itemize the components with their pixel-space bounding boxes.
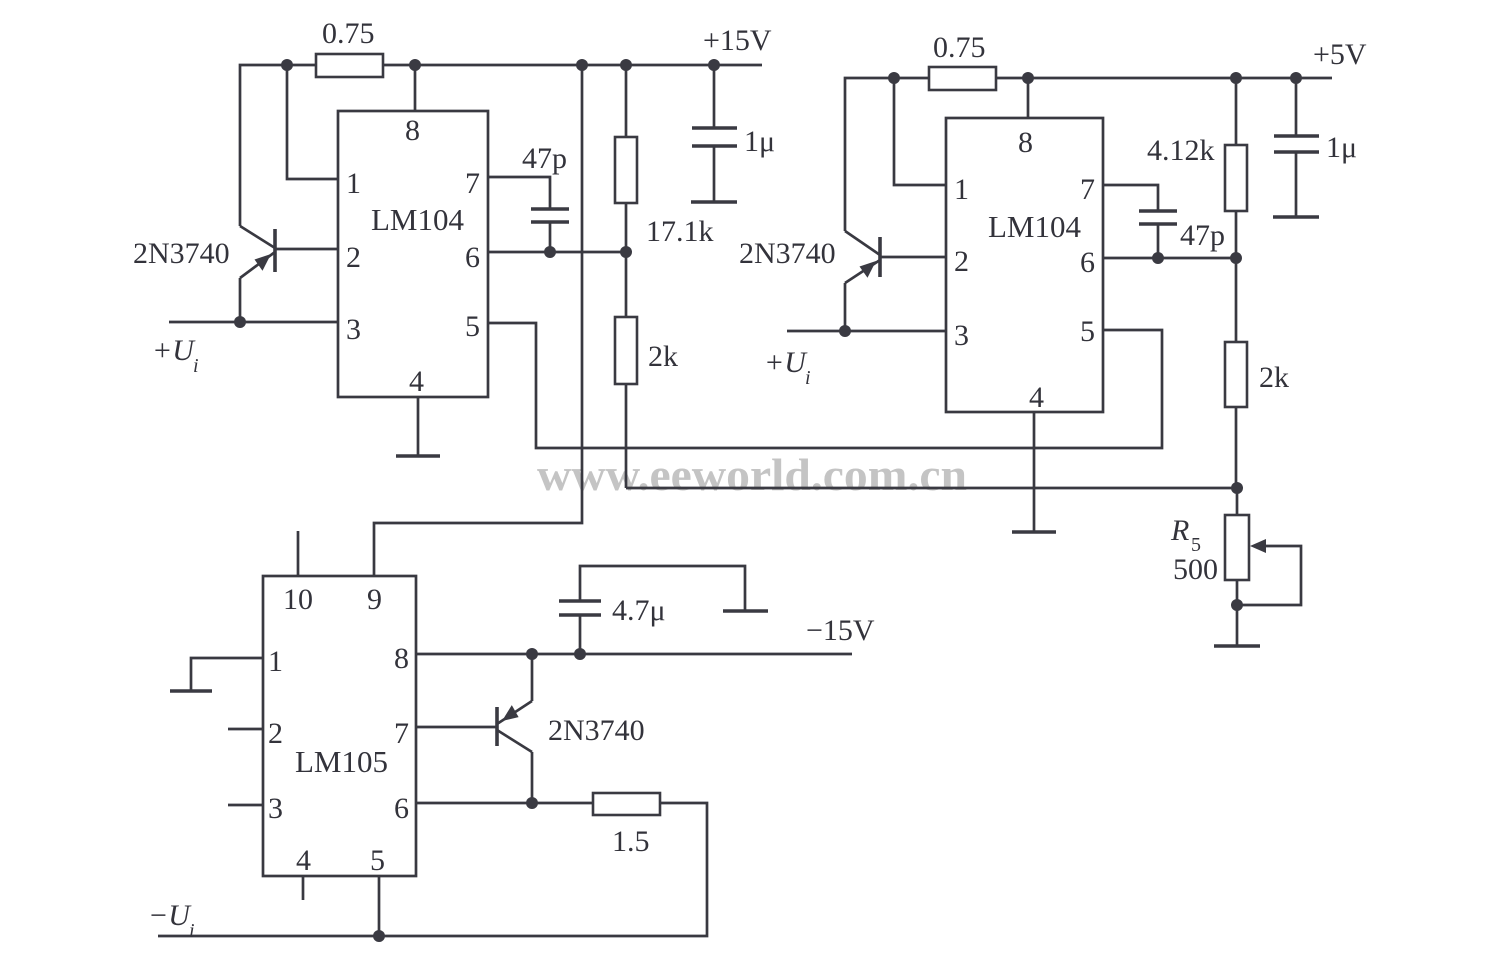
svg-text:6: 6 bbox=[465, 241, 480, 274]
wire pin 10 stub bbox=[297, 531, 300, 576]
wire drop to pin 1 bbox=[287, 65, 338, 179]
wire pin 6 (left) bbox=[488, 251, 626, 254]
junction dots right rail bbox=[888, 72, 900, 84]
svg-text:3: 3 bbox=[346, 313, 361, 346]
svg-text:+U: +U bbox=[764, 346, 808, 379]
svg-text:5: 5 bbox=[370, 844, 385, 877]
svg-text:−U: −U bbox=[148, 899, 192, 932]
junction dot pin6 LM105 bbox=[526, 797, 538, 809]
svg-text:4.12k: 4.12k bbox=[1147, 134, 1215, 167]
svg-text:1: 1 bbox=[954, 173, 969, 206]
transistor Q1 2N3740 (left) bbox=[273, 229, 277, 272]
junction dot +Ui (right) bbox=[839, 325, 851, 337]
ground (LM105 pin 1) bbox=[170, 689, 212, 693]
wire 4.12k/2k chain vertical (right) bbox=[1235, 78, 1238, 488]
wire pin 5 drop bbox=[378, 876, 381, 936]
svg-text:5: 5 bbox=[1080, 315, 1095, 348]
junction dots left rail bbox=[281, 59, 293, 71]
capacitor 1u (right) bbox=[1295, 78, 1298, 136]
svg-text:7: 7 bbox=[1080, 173, 1095, 206]
regulator U3 LM105 bbox=[263, 576, 416, 876]
svg-text:10: 10 bbox=[283, 583, 313, 616]
svg-text:3: 3 bbox=[954, 319, 969, 352]
wire pin 8 / -15V rail bbox=[416, 653, 852, 656]
resistor 4.12k bbox=[1225, 145, 1247, 211]
svg-text:1μ: 1μ bbox=[744, 125, 775, 158]
svg-text:2: 2 bbox=[268, 717, 283, 750]
svg-text:8: 8 bbox=[394, 642, 409, 675]
junction dot R5 bottom bbox=[1231, 599, 1243, 611]
transistor Q2 2N3740 (right) bbox=[878, 237, 882, 277]
wire drop to pin 1 (right) bbox=[894, 78, 946, 185]
wire pin 8 riser (right) bbox=[1027, 78, 1030, 118]
wire +5V rail bbox=[845, 78, 1332, 231]
svg-text:2k: 2k bbox=[648, 340, 678, 373]
svg-text:+5V: +5V bbox=[1313, 38, 1367, 71]
ground (left pin 4) bbox=[417, 397, 420, 456]
svg-text:3: 3 bbox=[268, 792, 283, 825]
wire riser to LM105 pin 9 bbox=[374, 65, 582, 576]
resistor 0.75 (left) bbox=[316, 54, 383, 77]
svg-text:2k: 2k bbox=[1259, 361, 1289, 394]
svg-text:1.5: 1.5 bbox=[612, 825, 650, 858]
svg-text:0.75: 0.75 bbox=[933, 31, 986, 64]
wire pin 1 to ground bbox=[191, 658, 263, 691]
svg-text:1: 1 bbox=[346, 167, 361, 200]
svg-text:5: 5 bbox=[465, 310, 480, 343]
junction dot R5 top bbox=[1231, 482, 1243, 494]
junction dot +Ui (left) bbox=[234, 316, 246, 328]
op-amp U1 LM104 (left) bbox=[338, 111, 488, 397]
ground (right pin 4) bbox=[1033, 412, 1036, 532]
wire pin 6 (right) bbox=[1103, 257, 1236, 260]
svg-text:2: 2 bbox=[954, 245, 969, 278]
svg-text:1μ: 1μ bbox=[1326, 131, 1357, 164]
svg-text:0.75: 0.75 bbox=[322, 17, 375, 50]
junction dots pin6 line (left) bbox=[544, 246, 556, 258]
svg-text:500: 500 bbox=[1173, 553, 1218, 586]
wire pin 4 stub bbox=[302, 876, 305, 900]
svg-text:LM104: LM104 bbox=[371, 202, 465, 237]
wire 17.1k/2k chain vertical bbox=[625, 65, 628, 488]
junction dot -Ui bbox=[373, 930, 385, 942]
ground (left 1u) bbox=[691, 200, 737, 204]
svg-text:+U: +U bbox=[152, 334, 196, 367]
op-amp U2 LM104 (right) bbox=[946, 118, 1103, 412]
transistor Q3 2N3740 (bottom) bbox=[495, 707, 499, 746]
svg-text:7: 7 bbox=[394, 717, 409, 750]
resistor 2k (left) bbox=[615, 317, 637, 384]
svg-text:47p: 47p bbox=[1180, 219, 1225, 252]
svg-text:2N3740: 2N3740 bbox=[739, 237, 836, 270]
svg-text:www.eeworld.com.cn: www.eeworld.com.cn bbox=[537, 449, 967, 500]
ground (right 1u) bbox=[1273, 215, 1319, 219]
svg-text:R: R bbox=[1170, 514, 1189, 547]
svg-text:47p: 47p bbox=[522, 142, 567, 175]
svg-text:8: 8 bbox=[1018, 126, 1033, 159]
svg-text:4.7μ: 4.7μ bbox=[612, 594, 666, 627]
wire +Ui input (right) bbox=[787, 330, 946, 333]
junction dots pin6 line (right) bbox=[1152, 252, 1164, 264]
junction dots -15V line bbox=[526, 648, 538, 660]
ground (R5) bbox=[1214, 644, 1260, 648]
svg-text:2N3740: 2N3740 bbox=[133, 237, 230, 270]
resistor 2k (right) bbox=[1225, 342, 1247, 407]
svg-text:17.1k: 17.1k bbox=[646, 215, 714, 248]
svg-text:2N3740: 2N3740 bbox=[548, 714, 645, 747]
wire +15V rail bbox=[240, 65, 762, 226]
wire pin 8 riser bbox=[414, 65, 417, 111]
wire pin 3 stub bbox=[228, 804, 263, 807]
resistor 0.75 (right) bbox=[929, 67, 996, 90]
svg-text:i: i bbox=[193, 355, 199, 377]
wire 2k bottom to R5 bbox=[626, 487, 1237, 490]
capacitor 1u (left) bbox=[713, 65, 716, 128]
wire +Ui input (left) bbox=[169, 321, 338, 324]
svg-text:−15V: −15V bbox=[806, 614, 875, 647]
svg-text:4: 4 bbox=[296, 844, 311, 877]
svg-text:7: 7 bbox=[465, 167, 480, 200]
wire pin 6 + resistor 1.5 bbox=[416, 802, 593, 805]
svg-text:i: i bbox=[189, 920, 195, 942]
svg-text:4: 4 bbox=[1029, 381, 1044, 414]
svg-text:4: 4 bbox=[409, 365, 424, 398]
wire pin 5 to right LM104 pin 5 bbox=[488, 323, 1162, 448]
capacitor 47p (right) bbox=[1103, 185, 1158, 211]
ground (4.7u) bbox=[723, 609, 768, 613]
wire pin 2 stub bbox=[228, 728, 263, 731]
svg-text:1: 1 bbox=[268, 645, 283, 678]
svg-text:LM104: LM104 bbox=[988, 209, 1082, 244]
svg-text:8: 8 bbox=[405, 114, 420, 147]
svg-text:+15V: +15V bbox=[703, 24, 772, 57]
svg-text:6: 6 bbox=[394, 792, 409, 825]
svg-text:6: 6 bbox=[1080, 246, 1095, 279]
svg-text:2: 2 bbox=[346, 241, 361, 274]
potentiometer R5 500 bbox=[1236, 488, 1239, 646]
resistor 17.1k bbox=[615, 137, 637, 203]
capacitor 47p (left) bbox=[488, 177, 550, 209]
svg-text:9: 9 bbox=[367, 583, 382, 616]
capacitor 4.7u bbox=[579, 615, 582, 654]
svg-text:i: i bbox=[805, 367, 811, 389]
svg-text:LM105: LM105 bbox=[295, 744, 388, 779]
